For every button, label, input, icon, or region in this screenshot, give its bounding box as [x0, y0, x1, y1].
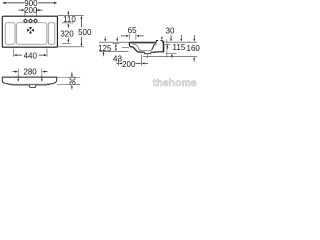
dim 110 arrows: [67, 11, 69, 13]
dim 500: [80, 19, 82, 28]
right down arrows: [180, 35, 182, 39]
side view front edge: [129, 42, 133, 47]
svg-text:30: 30: [69, 76, 78, 85]
svg-text:110: 110: [63, 15, 76, 24]
side view drain boss: [144, 52, 151, 54]
rim ref line right: [167, 41, 197, 43]
plan view outer rect: [2, 16, 57, 47]
svg-text:500: 500: [78, 28, 92, 37]
plan bowl: [16, 23, 47, 45]
dim 200 (side): [119, 55, 142, 66]
tap marker arrow: [161, 36, 163, 38]
left ref arrows: [104, 37, 106, 39]
dim 280: [18, 69, 42, 75]
front view top line: [2, 76, 57, 78]
drain target symbol: [27, 27, 34, 33]
svg-text:30: 30: [166, 27, 175, 36]
280 drop arrows: [17, 75, 19, 80]
side view rim top: [129, 41, 156, 43]
svg-text:200: 200: [122, 60, 136, 69]
plan right shelf: [48, 23, 55, 45]
dim 30 rotated (front view): [57, 77, 80, 85]
front drain tab: [30, 85, 36, 88]
side view rim inner line: [131, 43, 157, 45]
dim 440: [14, 49, 48, 57]
svg-text:thehome: thehome: [153, 77, 197, 89]
side view bowl inner: [132, 44, 152, 51]
wall line: [166, 39, 168, 57]
side view tap block: [156, 41, 162, 43]
dim 320: [67, 38, 69, 41]
svg-text:320: 320: [60, 30, 74, 39]
dim 900: [3, 2, 56, 4]
svg-text:280: 280: [23, 67, 37, 76]
svg-text:43: 43: [113, 54, 122, 63]
side view bowl underside: [133, 47, 164, 52]
svg-text:115: 115: [173, 43, 186, 52]
ref tick bowl-top ext (110 lower): [62, 22, 74, 24]
svg-text:200: 200: [24, 6, 38, 15]
plan left shelf: [5, 23, 15, 45]
svg-text:160: 160: [187, 44, 200, 53]
svg-text:440: 440: [24, 51, 38, 60]
dim 200: [25, 8, 36, 16]
tap hole diamonds: [24, 19, 38, 23]
front view outline: [2, 77, 56, 85]
dim 30 lower ref: [165, 44, 171, 46]
ref line top (110/500): [58, 15, 84, 17]
side view back wedge: [163, 41, 164, 52]
rim ref line left: [99, 41, 129, 43]
drain pipe line: [147, 54, 149, 58]
front view inner line: [5, 83, 52, 84]
side view block-to-wall line: [163, 41, 167, 43]
